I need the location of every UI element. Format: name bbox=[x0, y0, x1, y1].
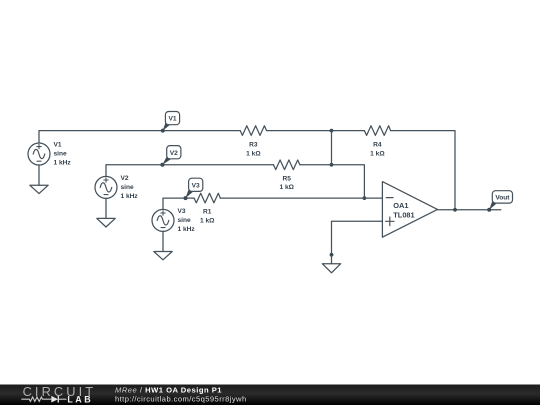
op-amp OA1 bbox=[382, 182, 437, 238]
node V2 flag bbox=[160, 146, 181, 167]
wire R4 right to output bbox=[391, 131, 455, 210]
wire net V2 horizontal bbox=[106, 165, 364, 198]
CircuitLab logo bbox=[21, 384, 96, 404]
resistor R3 bbox=[240, 126, 266, 136]
ground (V3) bbox=[154, 252, 172, 260]
svg-text:R4: R4 bbox=[373, 142, 382, 149]
svg-text:sine: sine bbox=[121, 184, 135, 191]
svg-text:1 kΩ: 1 kΩ bbox=[200, 218, 215, 225]
wire V3 to ground bbox=[162, 231, 164, 251]
ground (op-amp +) bbox=[322, 255, 340, 273]
node Vout flag bbox=[487, 191, 512, 212]
svg-text:Vout: Vout bbox=[495, 194, 510, 201]
resistor R1 bbox=[194, 193, 220, 203]
svg-text:V3: V3 bbox=[178, 208, 186, 215]
voltage source V2 bbox=[95, 176, 117, 198]
junction D bbox=[330, 253, 334, 257]
wire V2 to ground bbox=[105, 198, 107, 218]
svg-text:LAB: LAB bbox=[67, 395, 93, 405]
svg-text:R3: R3 bbox=[249, 142, 258, 149]
junction C bbox=[363, 196, 367, 200]
junction A bbox=[330, 129, 334, 133]
ground (V2) bbox=[97, 218, 115, 227]
svg-text:1 kHz: 1 kHz bbox=[178, 226, 196, 233]
resistor R5 bbox=[274, 160, 300, 170]
svg-text:V3: V3 bbox=[192, 182, 200, 189]
svg-text:http://circuitlab.com/c5q595rr: http://circuitlab.com/c5q595rr8jywh bbox=[115, 395, 247, 404]
svg-text:1 kHz: 1 kHz bbox=[54, 159, 72, 166]
svg-text:1 kΩ: 1 kΩ bbox=[370, 151, 385, 158]
svg-text:V2: V2 bbox=[121, 175, 129, 182]
svg-text:R1: R1 bbox=[203, 209, 212, 216]
voltage source V3 bbox=[152, 209, 174, 231]
wire net V1 top horizontal bbox=[39, 130, 332, 132]
footer text bbox=[115, 386, 247, 404]
labels bbox=[54, 116, 511, 233]
wire V1 to ground bbox=[38, 165, 40, 185]
svg-text:TL081: TL081 bbox=[393, 210, 414, 219]
svg-text:1 kΩ: 1 kΩ bbox=[279, 184, 294, 191]
junction E output bbox=[453, 208, 457, 212]
svg-text:1 kHz: 1 kHz bbox=[121, 193, 139, 200]
svg-text:OA1: OA1 bbox=[393, 201, 408, 210]
voltage source V1 bbox=[28, 131, 50, 165]
svg-text:R5: R5 bbox=[282, 175, 291, 182]
wire R4 left lead bbox=[332, 130, 365, 132]
junction B bbox=[330, 163, 334, 167]
node V1 flag bbox=[161, 112, 180, 133]
resistor R4 bbox=[364, 126, 390, 136]
wire junction A down bbox=[331, 131, 333, 165]
svg-text:sine: sine bbox=[178, 217, 192, 224]
wire output bbox=[438, 209, 501, 211]
wire net V3 horizontal bbox=[163, 198, 382, 209]
svg-text:1 kΩ: 1 kΩ bbox=[246, 151, 261, 158]
svg-text:V1: V1 bbox=[54, 142, 62, 149]
wire op-amp + input to ground bbox=[332, 221, 383, 255]
svg-text:V1: V1 bbox=[168, 116, 176, 123]
node V3 flag bbox=[184, 178, 203, 200]
svg-text:sine: sine bbox=[54, 151, 68, 158]
ground (V1) bbox=[30, 185, 48, 193]
svg-text:MRee / HW1 OA Design P1: MRee / HW1 OA Design P1 bbox=[115, 386, 222, 395]
svg-text:V2: V2 bbox=[170, 150, 178, 157]
